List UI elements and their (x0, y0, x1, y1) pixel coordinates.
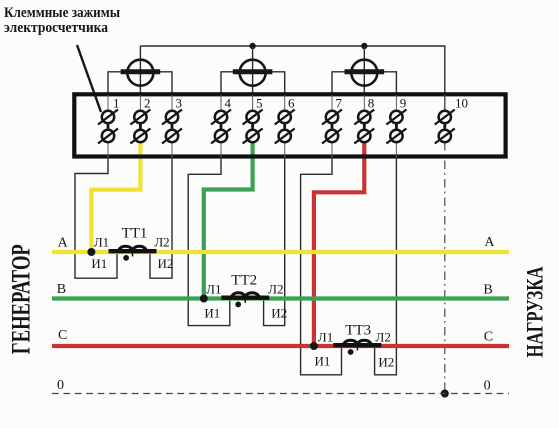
phase bus A (52, 250, 509, 254)
svg-text:4: 4 (225, 96, 232, 111)
junction dot phase B tap (200, 295, 208, 303)
svg-text:10: 10 (455, 96, 468, 111)
svg-text:Л2: Л2 (376, 330, 391, 345)
svg-text:ГЕНЕРАТОР: ГЕНЕРАТОР (7, 244, 36, 354)
wire CT TT1 secondary И1 to terminal1 (75, 159, 117, 279)
terminal box (74, 94, 505, 156)
coil W2 circle (240, 60, 266, 86)
junction dot above coil 2 (249, 43, 255, 49)
svg-text:С: С (484, 330, 493, 345)
svg-text:И1: И1 (91, 256, 107, 271)
TT2 polarity dot (235, 302, 241, 308)
pointer line from title to terminal box (77, 45, 101, 112)
wire terminal8 through coil W3 (363, 46, 365, 95)
junction dot phase A tap (87, 248, 95, 256)
svg-text:А: А (58, 236, 69, 251)
CT TT3 on phase C (310, 323, 394, 370)
svg-text:1: 1 (113, 96, 120, 111)
TT1 primary bar (109, 249, 157, 253)
svg-text:Л1: Л1 (94, 235, 109, 250)
TT1 secondary arcs (119, 246, 146, 251)
coil W1 bar (121, 69, 161, 74)
coil W3 circle (351, 60, 377, 86)
coil W1 circle (127, 60, 153, 86)
wire terminal9 to coil W3 right (384, 72, 396, 95)
svg-text:Л2: Л2 (268, 282, 283, 297)
CT TT1 on phase A (87, 226, 173, 272)
terminal 1 (98, 95, 118, 159)
wire terminal5 through coil W2 (252, 46, 254, 95)
wire neutral terminal10 dash-dot to 0 bus (444, 142, 446, 394)
phase bus B (52, 296, 509, 300)
junction dot phase C tap (310, 342, 318, 350)
svg-text:И1: И1 (204, 306, 220, 321)
svg-text:7: 7 (336, 96, 343, 111)
svg-text:5: 5 (256, 96, 263, 111)
wire CT TT2 secondary И1 to terminal4 (188, 159, 230, 326)
TT2 primary bar (221, 296, 269, 300)
svg-text:6: 6 (288, 96, 295, 111)
svg-text:И2: И2 (378, 355, 394, 370)
terminal numbers 1-10 (113, 96, 468, 111)
wire yellow terminal2 to phase A tap (91, 141, 140, 252)
coil W2 bar (233, 69, 273, 74)
neutral bus 0 dashed (52, 393, 509, 395)
svg-text:0: 0 (484, 379, 491, 394)
terminal 5 (243, 95, 263, 144)
svg-text:ТТ2: ТТ2 (231, 273, 257, 289)
terminal 9 (386, 95, 406, 159)
wire CT TT1 secondary И2 to terminal3 (150, 159, 172, 279)
TT3 polarity dot (348, 349, 354, 355)
terminals 1-10 (98, 95, 455, 159)
TT2 secondary arcs (232, 293, 259, 298)
terminal 4 (211, 95, 231, 159)
svg-text:Клеммные зажимы: Клеммные зажимы (4, 5, 121, 21)
svg-text:9: 9 (400, 96, 407, 111)
svg-text:И2: И2 (271, 306, 287, 321)
TT3 primary bar (333, 343, 381, 347)
svg-text:С: С (58, 328, 67, 343)
wire terminal4 to coil W2 left (221, 72, 233, 95)
bus labels left (57, 236, 69, 394)
junction dot neutral (441, 390, 449, 398)
svg-text:НАГРУЗКА: НАГРУЗКА (523, 266, 549, 357)
svg-text:Л1: Л1 (206, 282, 221, 297)
terminal 3 (162, 95, 182, 159)
terminal 2 (130, 95, 150, 144)
wire terminal7 to coil W3 left (332, 72, 345, 95)
svg-text:8: 8 (368, 96, 375, 111)
wire CT TT2 secondary И2 to terminal6 (264, 159, 285, 326)
terminal 10 (435, 95, 455, 144)
svg-text:И2: И2 (158, 256, 174, 271)
svg-text:А: А (484, 235, 495, 250)
svg-text:И1: И1 (315, 354, 331, 369)
svg-text:Л1: Л1 (318, 330, 333, 345)
svg-text:ТТ1: ТТ1 (122, 226, 148, 242)
wire terminal6 to coil W2 right (272, 72, 285, 95)
coil W3 bar (345, 69, 385, 74)
wire terminal1 to coil W1 left (108, 72, 121, 95)
svg-text:0: 0 (57, 378, 64, 393)
bus labels right (483, 235, 495, 394)
wire green terminal5 to phase B tap (204, 141, 253, 299)
svg-text:В: В (483, 283, 492, 298)
wire CT TT3 secondary И1 to terminal7 (301, 159, 342, 375)
TT1 polarity dot (123, 255, 129, 261)
svg-text:3: 3 (176, 96, 183, 111)
svg-text:ТТ3: ТТ3 (345, 323, 371, 339)
wire terminal2 through coil W1 (139, 46, 141, 95)
svg-text:электросчетчика: электросчетчика (4, 20, 109, 36)
svg-text:Л2: Л2 (154, 235, 169, 250)
TT3 secondary arcs (344, 340, 371, 345)
title label: Клеммные зажимы электросчетчика (4, 5, 121, 36)
terminal 6 (275, 95, 295, 159)
top interconnect wire (voltage circuit) (140, 46, 444, 111)
wire terminal3 to coil W1 right (160, 72, 172, 95)
wire CT TT3 secondary И2 to terminal9 (375, 159, 397, 375)
svg-text:2: 2 (144, 96, 151, 111)
wire red terminal8 to phase C tap (314, 141, 364, 346)
svg-text:В: В (57, 282, 66, 297)
terminal 7 (322, 95, 342, 159)
CT TT2 on phase B (200, 273, 287, 321)
junction dot above coil 3 (361, 43, 367, 49)
phase bus C (52, 344, 509, 348)
terminal 8 (354, 95, 374, 144)
